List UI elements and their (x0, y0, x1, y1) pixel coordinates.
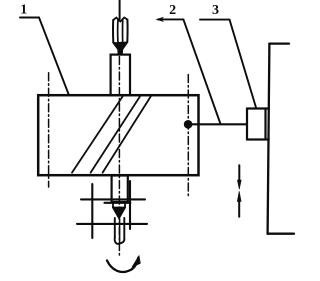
bracket top flange (269, 42, 289, 44)
left centerline (48, 73, 50, 187)
svg-text:2: 2 (169, 3, 176, 18)
top axis vertical line (119, 0, 121, 19)
connecting rod (188, 123, 247, 125)
bushing frame vertical right (129, 181, 131, 229)
rotation arrowhead (132, 256, 141, 268)
bushing frame horizontal lower (77, 223, 147, 225)
reciprocating arrows (237, 165, 241, 217)
bracket plate (268, 44, 270, 234)
small block (slider) (247, 109, 269, 140)
svg-text:3: 3 (212, 3, 219, 18)
hatch line c (103, 97, 151, 173)
top spindle block (111, 55, 130, 96)
main box (workpiece) (38, 95, 198, 175)
bottom drill body (115, 218, 125, 244)
leader line for 2 (158, 19, 221, 124)
pivot dot (184, 120, 193, 129)
lower spindle block (112, 176, 128, 203)
bushing frame vertical left (91, 184, 93, 238)
bushing frame horizontal upper (81, 198, 145, 200)
bracket bottom flange (268, 233, 294, 235)
top drill bit (113, 18, 128, 53)
chuck taper (113, 203, 125, 218)
leader line for 1 (20, 18, 69, 95)
leader line for 3 (200, 20, 256, 108)
hatch line b (91, 97, 140, 173)
spindle centerline (118, 57, 120, 256)
hatch line a (72, 97, 123, 173)
right centerline (187, 75, 189, 196)
lower block cap (105, 202, 131, 204)
rotation arc (107, 258, 138, 272)
svg-text:1: 1 (20, 3, 27, 18)
